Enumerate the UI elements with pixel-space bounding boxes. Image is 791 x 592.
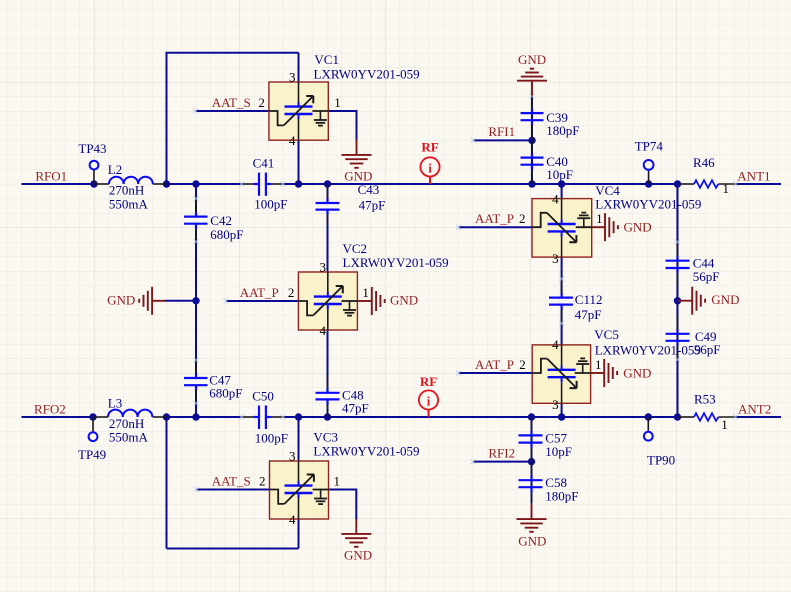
wire R46 right pin xyxy=(719,183,736,185)
pin-end marker C112 bottom xyxy=(559,321,564,326)
wire bottom loop horizontal xyxy=(167,548,299,550)
svg-text:4: 4 xyxy=(552,192,559,207)
wire top loop horizontal xyxy=(166,52,299,54)
svg-text:C58: C58 xyxy=(545,475,567,490)
resistor R53 xyxy=(694,413,719,421)
wire C57 bottom pin xyxy=(531,445,533,461)
wire C58 bottom pin xyxy=(531,490,533,505)
testpoint TP74 xyxy=(644,160,654,170)
svg-text:AAT_S: AAT_S xyxy=(212,474,251,489)
svg-text:2: 2 xyxy=(519,211,526,226)
node C44 top junction xyxy=(674,180,681,187)
pin-end marker C49 bottom xyxy=(675,357,680,362)
pin-end marker C50 left xyxy=(239,414,244,419)
node VC3 pin3 junction xyxy=(295,413,302,420)
svg-text:47pF: 47pF xyxy=(359,198,386,213)
wire C39 bottom pin xyxy=(531,123,533,141)
svg-text:VC3: VC3 xyxy=(313,430,338,445)
wire R53 left pin xyxy=(678,416,694,418)
svg-text:3: 3 xyxy=(289,449,296,464)
wire C47 bottom pin xyxy=(195,388,197,404)
svg-text:3: 3 xyxy=(552,397,559,412)
svg-text:680pF: 680pF xyxy=(210,227,243,242)
node VC1 pin4 junction xyxy=(295,180,302,187)
wire AAT_S stub VC3 xyxy=(197,489,270,491)
svg-text:GND: GND xyxy=(518,52,546,67)
wire VC3 pin3 drop xyxy=(298,417,300,461)
node TP74 junction xyxy=(645,180,652,187)
svg-text:RF: RF xyxy=(421,140,438,155)
inductor L2 xyxy=(109,177,153,184)
varicap VC2 body xyxy=(298,272,357,330)
varicap VC3 body xyxy=(270,461,329,519)
ground GND below C58 xyxy=(517,504,547,531)
svg-text:GND: GND xyxy=(711,292,739,307)
wire C42 bottom pin xyxy=(195,227,197,241)
wire AAT_P stub VC2 xyxy=(226,300,298,302)
wire C57-C58 column xyxy=(531,417,533,503)
wire GND stub to C42 node xyxy=(165,300,197,302)
wire TP43 stub xyxy=(93,170,95,184)
node C47 bottom junction xyxy=(192,413,199,420)
svg-text:VC2: VC2 xyxy=(343,241,368,256)
varicap VC4 body xyxy=(532,199,592,258)
svg-text:1: 1 xyxy=(334,95,341,110)
wire bottom rail mid xyxy=(284,416,679,418)
svg-text:47pF: 47pF xyxy=(342,401,369,416)
svg-text:GND: GND xyxy=(107,293,135,308)
capacitor C49 symbol xyxy=(666,329,690,345)
wire C112 to VC5 pin4 xyxy=(561,307,563,345)
svg-text:2: 2 xyxy=(288,285,295,300)
wire VC1 pin3 drop xyxy=(298,53,300,82)
capacitor C42 symbol xyxy=(184,212,208,229)
testpoint TP43 xyxy=(90,161,99,170)
svg-text:100pF: 100pF xyxy=(254,196,287,211)
svg-text:C43: C43 xyxy=(358,182,380,197)
wire C47 column upper xyxy=(195,301,197,374)
ground sideways at C42-C47 node xyxy=(139,287,165,315)
wire TP90 stub xyxy=(647,417,649,432)
svg-text:TP49: TP49 xyxy=(78,447,106,462)
svg-text:GND: GND xyxy=(344,168,372,183)
testpoint TP90 xyxy=(644,432,653,441)
svg-text:4: 4 xyxy=(289,512,296,527)
node R53 branch junction xyxy=(674,413,681,420)
svg-text:C57: C57 xyxy=(545,430,567,445)
wire VC1 pin1 elbow xyxy=(328,111,356,141)
svg-text:ANT2: ANT2 xyxy=(738,402,771,417)
svg-text:C50: C50 xyxy=(252,389,274,404)
wire VC3 pin4 drop xyxy=(298,519,300,549)
wire RFO2 rail left xyxy=(22,416,94,418)
svg-text:TP74: TP74 xyxy=(635,139,664,154)
pin-end marker C41 right xyxy=(280,181,285,186)
wire C112 top pin xyxy=(561,279,563,296)
svg-text:RF: RF xyxy=(420,374,437,389)
capacitor C48 symbol xyxy=(316,388,340,404)
wire C44 top pin xyxy=(677,244,679,258)
wire RFO2 rail after L3 xyxy=(167,416,242,418)
svg-text:2: 2 xyxy=(258,95,265,110)
svg-text:10pF: 10pF xyxy=(546,167,573,182)
node C42-C47-GND junction xyxy=(192,297,199,304)
wire RFI2 stub xyxy=(473,461,531,463)
wire C58 top pin xyxy=(531,462,533,478)
svg-text:i: i xyxy=(428,161,432,175)
directive RF bottom xyxy=(419,374,438,417)
node C44-C49-GND junction xyxy=(674,297,681,304)
pin-end marker AAT_S VC1 xyxy=(193,108,198,113)
svg-text:GND: GND xyxy=(518,533,546,548)
wire C48 top pin xyxy=(327,375,329,391)
svg-text:RFO2: RFO2 xyxy=(34,402,66,417)
pin-end marker RFI1 xyxy=(471,138,476,143)
wire VC4 pin3 to C112 xyxy=(561,257,563,295)
wire AAT_S stub VC1 xyxy=(196,110,269,112)
svg-text:L3: L3 xyxy=(108,395,122,410)
wire RFO1 rail left xyxy=(22,183,95,185)
capacitor C47 symbol xyxy=(184,374,208,391)
wire C43 bottom pin xyxy=(327,212,329,225)
svg-text:RFI2: RFI2 xyxy=(488,446,515,461)
pin-end marker C44 top xyxy=(675,239,680,244)
wire C112 bottom pin xyxy=(561,307,563,324)
wire C43 to VC2 pin3 xyxy=(327,213,329,272)
wire top rail mid xyxy=(284,183,680,185)
svg-text:550mA: 550mA xyxy=(109,430,149,445)
svg-text:2: 2 xyxy=(519,357,526,372)
svg-text:LXRW0YV201-059: LXRW0YV201-059 xyxy=(595,343,701,358)
svg-text:2: 2 xyxy=(259,474,266,489)
pin-end marker C42 bottom xyxy=(193,239,198,244)
svg-text:1: 1 xyxy=(721,417,728,432)
wire C49 bottom pin xyxy=(677,343,679,360)
wire C43 top pin xyxy=(327,184,329,201)
directive RF top xyxy=(420,140,439,184)
svg-text:ANT1: ANT1 xyxy=(737,169,770,184)
node bottom loop junction xyxy=(163,413,170,420)
svg-text:56pF: 56pF xyxy=(693,269,720,284)
svg-text:RFI1: RFI1 xyxy=(488,124,515,139)
node TP49 junction xyxy=(89,413,96,420)
node TP90 junction xyxy=(645,413,652,420)
svg-text:R53: R53 xyxy=(694,392,716,407)
wire R53 right pin xyxy=(719,416,736,418)
pin-end marker RFI2 xyxy=(471,459,476,464)
wire C47 top pin xyxy=(195,360,197,376)
svg-text:AAT_P: AAT_P xyxy=(475,211,514,226)
svg-text:i: i xyxy=(427,394,431,408)
node C43 top junction xyxy=(324,180,331,187)
svg-text:1: 1 xyxy=(723,181,730,196)
pin-end marker C112 top xyxy=(559,276,564,281)
wire VC2 pin4 to C48 xyxy=(327,330,329,390)
svg-text:GND: GND xyxy=(624,220,652,235)
svg-text:C112: C112 xyxy=(575,292,603,307)
varicap VC5 body xyxy=(532,345,590,403)
capacitor C40 symbol xyxy=(521,153,544,169)
wire C48 to rail xyxy=(327,404,329,417)
wire C42 column lower xyxy=(195,228,197,301)
wire C39-C40 column xyxy=(531,96,533,184)
svg-text:VC5: VC5 xyxy=(594,327,619,342)
svg-text:GND: GND xyxy=(344,547,372,562)
ground GND above C39 xyxy=(517,69,547,96)
wire C50 right pin xyxy=(270,416,284,418)
svg-text:180pF: 180pF xyxy=(546,123,579,138)
wire top loop vertical xyxy=(166,53,168,184)
pin-end marker C50 right xyxy=(280,414,285,419)
svg-text:180pF: 180pF xyxy=(545,489,578,504)
wire C50 left pin xyxy=(241,416,255,418)
svg-text:TP43: TP43 xyxy=(78,141,106,156)
wire C41 right pin xyxy=(270,183,284,185)
wire VC5 pin3 to rail xyxy=(561,403,563,417)
wire VC1 pin4 to rail xyxy=(298,140,300,184)
svg-text:C41: C41 xyxy=(253,155,275,170)
wire C47 column lower xyxy=(195,390,197,418)
wire C42 top pin xyxy=(195,199,197,215)
ground VC1 GND xyxy=(342,140,372,168)
wire TP49 stub xyxy=(92,417,94,432)
svg-text:TP90: TP90 xyxy=(647,453,675,468)
capacitor C44 symbol xyxy=(666,256,690,273)
wire ANT2 segment xyxy=(736,416,782,418)
resistor R46 xyxy=(694,180,719,188)
node C42 top junction xyxy=(192,180,199,187)
svg-text:L2: L2 xyxy=(108,162,122,177)
svg-text:1: 1 xyxy=(334,474,341,489)
pin-end marker C39 top xyxy=(529,93,534,98)
svg-text:1: 1 xyxy=(596,211,603,226)
wire C49 top pin xyxy=(677,315,679,331)
wire L3 right pin xyxy=(153,416,167,418)
pin-end marker C47 top xyxy=(193,357,198,362)
svg-text:10pF: 10pF xyxy=(545,444,572,459)
ground sideways at C44-C49 node xyxy=(678,287,706,315)
svg-text:100pF: 100pF xyxy=(255,431,288,446)
wire L3 left pin xyxy=(93,416,108,418)
svg-text:VC1: VC1 xyxy=(314,52,339,67)
svg-text:GND: GND xyxy=(623,365,651,380)
wire C43 column xyxy=(327,184,329,199)
wire L2 right pin xyxy=(153,183,167,185)
wire C44 bottom pin xyxy=(677,271,679,288)
capacitor C112 symbol xyxy=(549,293,573,309)
svg-text:LXRW0YV201-059: LXRW0YV201-059 xyxy=(313,444,419,459)
node RFI2 junction xyxy=(528,458,535,465)
svg-text:550mA: 550mA xyxy=(109,196,149,211)
wire C39 top pin xyxy=(531,96,533,111)
node C40 bottom junction xyxy=(528,180,535,187)
svg-text:AAT_P: AAT_P xyxy=(240,285,279,300)
ground VC3 GND xyxy=(341,519,371,547)
wire C40 bottom pin xyxy=(531,167,533,184)
wire L2 left pin xyxy=(94,183,109,185)
svg-text:1: 1 xyxy=(362,285,369,300)
wire TP74 stub xyxy=(648,170,650,184)
svg-text:AAT_S: AAT_S xyxy=(212,95,251,110)
svg-text:680pF: 680pF xyxy=(209,386,242,401)
svg-text:47pF: 47pF xyxy=(575,307,602,322)
wire VC4 pin4 riser xyxy=(561,184,563,199)
capacitor C50 symbol xyxy=(254,406,271,430)
svg-text:LXRW0YV201-059: LXRW0YV201-059 xyxy=(595,196,701,211)
wire C44-C49 column xyxy=(677,184,679,417)
svg-text:C42: C42 xyxy=(210,213,232,228)
capacitor C43 symbol xyxy=(316,199,340,215)
svg-text:LXRW0YV201-059: LXRW0YV201-059 xyxy=(343,255,449,270)
node top loop junction xyxy=(163,180,170,187)
svg-text:LXRW0YV201-059: LXRW0YV201-059 xyxy=(314,66,420,81)
svg-text:4: 4 xyxy=(552,337,559,352)
svg-text:3: 3 xyxy=(289,70,296,85)
testpoint TP49 xyxy=(89,432,98,441)
wire AAT_P stub VC5 xyxy=(459,372,533,374)
wire ANT1 segment xyxy=(736,183,782,185)
wire C57 top pin xyxy=(531,417,533,433)
wire VC3 pin1 elbow xyxy=(329,490,357,520)
capacitor C39 symbol xyxy=(521,109,544,125)
node RFI1 junction xyxy=(528,137,535,144)
ground sideways VC5 pin1 xyxy=(591,359,618,387)
wire C42 column upper xyxy=(195,184,197,212)
pin-end marker C47 bottom xyxy=(193,401,198,406)
svg-text:GND: GND xyxy=(390,292,418,307)
wire C40 top pin xyxy=(531,140,533,155)
node C48 bottom junction xyxy=(324,413,331,420)
wire C48 bottom pin xyxy=(327,403,329,417)
wire RFI1 stub xyxy=(473,139,532,141)
svg-text:R46: R46 xyxy=(693,155,715,170)
svg-text:AAT_P: AAT_P xyxy=(475,357,514,372)
ground sideways VC2 pin1 xyxy=(357,287,384,315)
node TP43 junction xyxy=(90,180,97,187)
wire bottom loop vertical xyxy=(166,417,168,549)
svg-text:4: 4 xyxy=(320,323,327,338)
svg-text:3: 3 xyxy=(552,251,559,266)
node C57 top junction xyxy=(528,413,535,420)
pin-end marker C42 top xyxy=(193,196,198,201)
ground sideways VC4 pin1 xyxy=(592,213,618,241)
node VC4 top junction xyxy=(558,180,565,187)
wire C41 left pin xyxy=(241,183,255,185)
pin-end marker AAT_P VC4 xyxy=(456,225,461,230)
wire AAT_P stub VC4 xyxy=(459,226,533,228)
capacitor C41 symbol xyxy=(254,173,271,196)
wire R46 left pin xyxy=(679,183,694,185)
capacitor C58 symbol xyxy=(519,476,543,492)
pin-end marker R53 right xyxy=(733,414,738,419)
inductor L3 xyxy=(108,410,152,417)
node VC5 pin3 junction xyxy=(558,413,565,420)
pin-end marker AAT_S VC3 xyxy=(194,487,199,492)
wire RFO1 rail after L2 xyxy=(167,183,242,185)
capacitor C57 symbol xyxy=(519,431,543,448)
pin-end marker AAT_P VC2 xyxy=(223,298,228,303)
svg-text:1: 1 xyxy=(595,357,602,372)
varicap VC1 body xyxy=(269,82,328,140)
pin-end marker R46 right xyxy=(733,181,738,186)
svg-text:4: 4 xyxy=(289,133,296,148)
pin-end marker C41 left xyxy=(239,181,244,186)
pin-end marker AAT_P VC5 xyxy=(456,370,461,375)
svg-text:RFO1: RFO1 xyxy=(35,169,67,184)
svg-text:3: 3 xyxy=(320,260,327,275)
